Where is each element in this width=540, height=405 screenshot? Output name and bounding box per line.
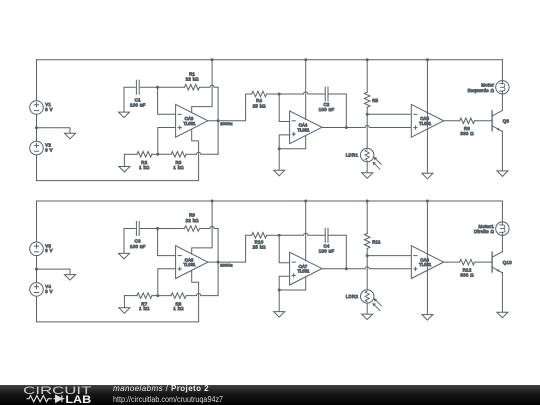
svg-text:200Hz: 200Hz xyxy=(220,121,233,126)
footer titles xyxy=(112,384,114,386)
wire divider to inverting input xyxy=(367,113,411,115)
node V+ rail tap xyxy=(211,200,214,203)
svg-text:330 Ω: 330 Ω xyxy=(460,273,474,278)
wire divider to inverting input xyxy=(367,255,411,257)
wire emitter to ground xyxy=(501,131,503,171)
wire OA8 output to R12 xyxy=(444,261,460,263)
wire divider middle xyxy=(152,153,171,155)
wire R4 to inverting node xyxy=(267,93,280,95)
wire inverting input drop 2 xyxy=(279,235,289,262)
wire ground to R7 xyxy=(124,295,136,297)
ground under LDR2 xyxy=(362,314,373,320)
svg-text:22 kΩ: 22 kΩ xyxy=(186,77,200,82)
wire OA4 output to OA5, hop over LDR leg xyxy=(322,125,411,127)
wire capacitor C1 left to ground xyxy=(124,87,135,112)
wire rail to R11 xyxy=(366,201,368,234)
wire top +9V rail (V1..motor) xyxy=(37,59,503,61)
op-amp OA3 TL081 xyxy=(176,104,208,137)
voltage source V4 9 V xyxy=(30,283,44,297)
wire source to bottom rail xyxy=(36,155,38,181)
wire collector to motor xyxy=(501,94,503,110)
wire node to R1 xyxy=(158,86,185,88)
node C2 feedback join xyxy=(345,267,348,270)
node supply rail tap 3 xyxy=(426,200,429,203)
wire C1 to node xyxy=(140,86,157,88)
wire node to C4, hop over V+ lead xyxy=(279,233,325,235)
motor Motor Esquerdo Ω xyxy=(496,81,509,94)
svg-text:TL081: TL081 xyxy=(183,262,196,267)
wire node to R9 xyxy=(158,228,185,230)
op-amp OA7 TL081 xyxy=(290,252,322,285)
ground under Q9 xyxy=(497,171,508,177)
resistor R6 330 Ω xyxy=(460,118,475,124)
wire left battery column xyxy=(36,201,38,242)
capacitor C1 100 nF xyxy=(135,80,137,94)
wire OA4 V+ to top rail xyxy=(305,60,307,120)
svg-text:25 kΩ: 25 kΩ xyxy=(253,103,267,108)
node ground jog xyxy=(278,147,281,150)
resistor R8 1 kΩ xyxy=(171,293,186,299)
wire C2 to output xyxy=(328,94,346,128)
node battery midpoint xyxy=(35,268,38,271)
svg-text:R1: R1 xyxy=(189,71,195,76)
svg-text:9 V: 9 V xyxy=(45,289,53,294)
wire OA6 output to R10 xyxy=(208,235,252,262)
wire midpoint to ground xyxy=(37,269,71,275)
voltage source V1 9 V xyxy=(30,101,44,115)
svg-text:22 kΩ: 22 kΩ xyxy=(186,218,200,223)
wire OA3 output to R4 xyxy=(208,94,252,121)
wire collector to motor xyxy=(501,235,503,251)
wire OA6 V+ to top rail xyxy=(192,201,212,254)
capacitor C2 100 nF xyxy=(324,87,326,101)
wire R12 to base xyxy=(475,261,493,263)
svg-text:Q9: Q9 xyxy=(503,119,510,124)
svg-text:Direito Ω: Direito Ω xyxy=(474,229,495,234)
wire OA8 supply column xyxy=(426,201,428,315)
wire inverting input drop 2 xyxy=(279,94,289,122)
svg-text:200Hz: 200Hz xyxy=(220,263,233,268)
resistor R9 22 kΩ xyxy=(185,226,200,232)
ground under OA4 xyxy=(274,170,285,176)
node LDR divider xyxy=(366,113,369,116)
svg-text:100 nF: 100 nF xyxy=(130,244,146,249)
svg-text:9 V: 9 V xyxy=(45,248,53,253)
voltage source V2 9 V xyxy=(30,141,44,155)
wire between sources xyxy=(36,256,38,283)
svg-text:1 kΩ: 1 kΩ xyxy=(173,165,184,170)
resistor R7 1 kΩ xyxy=(137,293,152,299)
ground under C3 xyxy=(119,253,130,259)
ground left of R2 xyxy=(123,154,125,166)
ground left of R7 xyxy=(123,296,125,308)
wire OA7 V- jog xyxy=(279,277,306,290)
svg-text:TL081: TL081 xyxy=(419,262,432,267)
resistor R11 vertical xyxy=(364,234,370,249)
svg-text:1 kΩ: 1 kΩ xyxy=(139,306,150,311)
wire feedback vertical xyxy=(217,229,219,296)
wire jog to ground xyxy=(278,290,280,312)
ground under OA7 xyxy=(274,312,285,318)
svg-text:9 V: 9 V xyxy=(45,148,53,153)
node second stage inverting xyxy=(278,93,281,96)
ground under LDR1 xyxy=(362,173,373,179)
svg-text:9 V: 9 V xyxy=(45,107,53,112)
wire emitter to ground xyxy=(501,272,503,312)
svg-text:330 Ω: 330 Ω xyxy=(460,131,474,136)
svg-text:TL081: TL081 xyxy=(419,121,432,126)
op-amp OA4 TL081 xyxy=(290,111,322,144)
wire OA7 non-inverting to ground xyxy=(279,276,289,290)
wire inverting input drop xyxy=(158,87,176,114)
transistor Q10 NPN xyxy=(491,252,493,272)
capacitor C3 100 nF xyxy=(135,222,137,236)
wire left battery column xyxy=(36,60,38,101)
wire OA3 V+ to top rail xyxy=(192,60,212,113)
op-amp OA5 TL081 xyxy=(411,104,443,137)
node supply rail tap 3 xyxy=(426,58,429,61)
wire C4 to output xyxy=(328,235,346,268)
wire capacitor C3 left to ground xyxy=(124,229,135,254)
wire source to bottom rail xyxy=(36,296,38,322)
CircuitLab logo xyxy=(0,385,100,405)
capacitor C4 100 nF xyxy=(324,228,326,242)
svg-text:1 kΩ: 1 kΩ xyxy=(173,306,184,311)
wire R5 to divider node xyxy=(366,107,368,148)
ground under OA5 xyxy=(422,173,433,179)
wire between sources xyxy=(36,114,38,141)
wire jog to ground xyxy=(278,149,280,171)
photoresistor LDR2 xyxy=(361,290,374,303)
wire bottom -9V rail xyxy=(37,129,199,181)
wire OA5 output to R6 xyxy=(444,120,460,122)
wire R3 to feedback, hop over V- lead xyxy=(186,152,218,154)
wire R11 to divider node xyxy=(366,249,368,290)
node R5 rail tap xyxy=(366,58,369,61)
wire OA5 supply column xyxy=(426,60,428,174)
ground battery midpoint xyxy=(65,133,76,139)
photoresistor LDR1 xyxy=(361,148,374,161)
resistor R12 330 Ω xyxy=(460,259,475,265)
node battery midpoint xyxy=(35,126,38,129)
wire OA4 non-inverting to ground xyxy=(279,135,289,149)
node ground jog xyxy=(278,289,281,292)
svg-text:TL081: TL081 xyxy=(183,121,196,126)
wire motor to top rail xyxy=(501,60,503,81)
node second stage inverting xyxy=(278,234,281,237)
wire LDR1 to ground xyxy=(366,162,368,173)
svg-text:100 nF: 100 nF xyxy=(130,103,146,108)
svg-text:LDR1: LDR1 xyxy=(346,153,359,158)
svg-text:25 kΩ: 25 kΩ xyxy=(253,245,267,250)
op-amp OA8 TL081 xyxy=(411,246,443,279)
svg-text:TL081: TL081 xyxy=(297,127,310,132)
wire divider middle xyxy=(152,295,171,297)
node op-amp output xyxy=(217,119,220,122)
node V+ rail tap 2 xyxy=(304,58,307,61)
wire OA3 non-inverting input xyxy=(158,128,176,155)
wire ground to R2 xyxy=(124,153,136,155)
wire inverting input drop xyxy=(158,229,176,256)
wire bottom -9V rail xyxy=(37,270,199,322)
wire R6 to base xyxy=(475,120,493,122)
transistor Q9 NPN xyxy=(491,111,493,131)
wire R8 to feedback, hop over V- lead xyxy=(186,294,218,296)
wire top +9V rail (V3..motor) xyxy=(37,200,503,202)
node C2 feedback join xyxy=(345,126,348,129)
op-amp OA6 TL081 xyxy=(176,246,208,279)
resistor R10 25 kΩ xyxy=(252,233,267,239)
node divider tap xyxy=(156,294,159,297)
wire OA4 V- jog xyxy=(279,136,306,149)
svg-text:Esquerdo Ω: Esquerdo Ω xyxy=(468,88,495,93)
svg-text:Q10: Q10 xyxy=(503,260,512,265)
resistor R4 25 kΩ xyxy=(252,91,267,97)
ground under Q10 xyxy=(497,312,508,318)
resistor R3 1 kΩ xyxy=(171,152,186,158)
svg-text:R9: R9 xyxy=(189,213,195,218)
node V+ rail tap xyxy=(211,58,214,61)
wire OA7 V+ to top rail xyxy=(305,201,307,261)
resistor R5 vertical xyxy=(364,92,370,107)
wire OA7 output to OA8, hop over LDR leg xyxy=(322,267,411,269)
svg-text:TL081: TL081 xyxy=(297,269,310,274)
node V+ rail tap 2 xyxy=(304,200,307,203)
ground under C1 xyxy=(119,112,130,118)
node divider tap xyxy=(156,153,159,156)
motor Motor1 Direito Ω xyxy=(496,222,509,235)
wire R1 to feedback, hop over V+ lead xyxy=(200,85,219,87)
wire feedback vertical xyxy=(217,87,219,154)
ground under OA8 xyxy=(422,315,433,321)
wire node to C2, hop over V+ lead xyxy=(279,92,325,94)
wire midpoint to ground xyxy=(37,128,71,134)
svg-text:R5: R5 xyxy=(372,98,378,103)
svg-text:1 kΩ: 1 kΩ xyxy=(139,165,150,170)
voltage source V3 9 V xyxy=(30,242,44,256)
ground battery midpoint xyxy=(65,275,76,281)
resistor R2 1 kΩ xyxy=(137,152,152,158)
wire OA6 non-inverting input xyxy=(158,269,176,296)
node inverting input xyxy=(156,227,159,230)
svg-text:LAB: LAB xyxy=(65,394,91,405)
wire LDR2 to ground xyxy=(366,303,368,314)
svg-text:100 nF: 100 nF xyxy=(319,248,335,253)
node inverting input xyxy=(156,86,159,89)
node LDR divider xyxy=(366,254,369,257)
node op-amp output xyxy=(217,261,220,264)
svg-text:R11: R11 xyxy=(372,240,381,245)
wire R9 to feedback, hop over V+ lead xyxy=(200,226,219,228)
svg-text:100 nF: 100 nF xyxy=(319,107,335,112)
node R5 rail tap xyxy=(366,200,369,203)
wire R10 to inverting node xyxy=(267,234,280,236)
wire motor to top rail xyxy=(501,201,503,222)
wire rail to R5 xyxy=(366,60,368,92)
resistor R1 22 kΩ xyxy=(185,84,200,90)
wire C3 to node xyxy=(140,228,157,230)
svg-text:LDR2: LDR2 xyxy=(346,294,359,299)
